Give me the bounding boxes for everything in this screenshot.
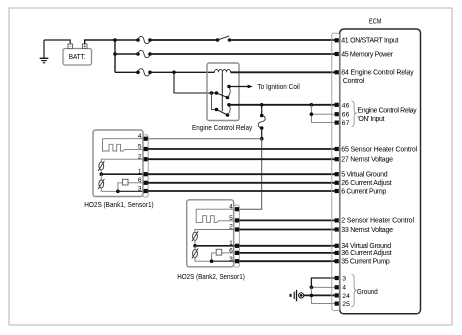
svg-text:3: 3: [342, 275, 346, 282]
wire fuse F1 to ignition switch: [150, 39, 218, 41]
pump cell (bank2): [194, 246, 196, 250]
junction cell node (bank1): [100, 172, 104, 176]
wire ground bus vertical: [310, 287, 312, 303]
wire row2 to fuse: [115, 53, 138, 55]
relay coil: [215, 70, 231, 73]
wire ground to ECM pin 24: [304, 294, 335, 296]
svg-text:1: 1: [229, 240, 233, 247]
svg-text:4: 4: [138, 133, 142, 140]
wire ECM pin 25 to ground bus: [311, 303, 334, 305]
junction ground bus a: [310, 286, 314, 290]
svg-text:34 Virtual Ground: 34 Virtual Ground: [341, 243, 391, 250]
svg-text:66: 66: [342, 112, 350, 119]
wire bank2 pin6 to ECM pin 36: [239, 252, 335, 254]
junction node relay contact feed: [172, 71, 176, 75]
wire pin2 to Nernst cell (bank2): [195, 230, 235, 233]
svg-text:Engine Control Relay: Engine Control Relay: [192, 125, 253, 132]
svg-text:2: 2: [229, 224, 233, 231]
svg-text:33 Nernst Voltage: 33 Nernst Voltage: [341, 227, 393, 234]
svg-text:'ON' Input: 'ON' Input: [357, 116, 384, 123]
connector strip (bank2): [234, 205, 239, 267]
wire ECM pin 3 to ground bus: [311, 278, 334, 287]
relay contact pole1 throw arc: [228, 87, 231, 98]
relay contact pole1 blade: [217, 93, 228, 98]
wire bank2 pin3 to ECM pin 35: [239, 260, 335, 262]
wire fuse F4 to heater bus: [261, 128, 263, 139]
HO2S (Bank2, Sensor1) sensor: [187, 200, 240, 267]
ECM pin squares: [335, 38, 339, 306]
ECM pin labels: [341, 38, 417, 308]
Nernst cell (bank1): [99, 162, 104, 170]
junction pump return (bank1): [116, 190, 120, 194]
svg-text:35 Current Pump: 35 Current Pump: [341, 259, 390, 266]
wire heater bus to HO2S bank1 pin 4: [148, 138, 262, 140]
wire bank1 pin2 to ECM pin 27: [148, 158, 335, 160]
svg-text:5 Virtual Ground: 5 Virtual Ground: [341, 172, 387, 179]
junction pin66 node: [310, 112, 314, 116]
pump cell (bank1): [100, 174, 102, 180]
svg-text:65 Sensor Heater Control: 65 Sensor Heater Control: [341, 146, 417, 153]
calibration resistor (bank1): [128, 182, 144, 184]
wire relay pole2 to ECM pin 46: [229, 104, 335, 106]
svg-text:HO2S (Bank2, Sensor1): HO2S (Bank2, Sensor1): [177, 274, 245, 281]
fuse F2: [136, 50, 152, 57]
svg-text:+: +: [83, 44, 86, 50]
junction battery bus row1: [113, 38, 117, 42]
wire heater bus down to HO2S bank2 pin 4: [239, 139, 262, 210]
wire to ECM pin 67: [311, 122, 334, 124]
wire bank2 pin1 to ECM pin 34: [239, 245, 335, 247]
svg-text:Engine Control Relay: Engine Control Relay: [357, 107, 417, 114]
wire bank1 pin1 to ECM pin 5: [148, 173, 335, 175]
svg-text:5: 5: [229, 215, 233, 222]
pin numbers (bank1): [138, 133, 142, 193]
wire junction down to relay contact common: [174, 72, 212, 93]
wire bank1 pin6 to ECM pin 26: [148, 182, 335, 184]
svg-text:46: 46: [342, 102, 350, 109]
svg-text:67: 67: [342, 120, 350, 127]
wire relay coil to ECM pin 84: [231, 71, 335, 73]
battery BATT.: [63, 44, 92, 65]
svg-text:84 Engine Control Relay: 84 Engine Control Relay: [341, 70, 414, 77]
svg-text:26 Current Adjust: 26 Current Adjust: [341, 180, 391, 187]
relay contact common junction: [210, 91, 214, 95]
wire bank2 pin2 to ECM pin 33: [239, 229, 335, 231]
svg-text:To Ignition Coil: To Ignition Coil: [257, 84, 300, 91]
wire battery negative to ground: [44, 40, 70, 44]
wire fuse F3 to relay coil: [150, 71, 215, 73]
svg-text:4: 4: [342, 285, 346, 292]
wire pin1 virtual ground (bank2): [195, 245, 235, 247]
junction cell node (bank2): [193, 244, 197, 248]
brace ON input group: [352, 101, 357, 127]
wire bank1 pin5 to ECM pin 65: [148, 148, 335, 150]
svg-text:2 Sensor Heater Control: 2 Sensor Heater Control: [341, 218, 414, 225]
svg-text:BATT.: BATT.: [69, 54, 86, 61]
heater element: [103, 139, 144, 151]
calibration resistor (bank2): [222, 252, 235, 254]
relay contact pole2 blade: [217, 110, 228, 116]
junction heater bus node: [260, 137, 264, 141]
arrowhead to ignition coil: [248, 85, 253, 89]
svg-text:24: 24: [342, 293, 350, 300]
wire row1 to fuse: [115, 39, 138, 41]
wire bank1 pin3 to ECM pin 6: [148, 190, 335, 192]
fuse F1: [136, 36, 152, 43]
wire battery feed bus (vertical): [114, 40, 116, 72]
wire pin3 (bank2): [212, 260, 235, 262]
svg-text:6: 6: [229, 247, 233, 254]
svg-text:HO2S (Bank1, Sensor1): HO2S (Bank1, Sensor1): [84, 202, 154, 209]
Nernst cell (bank2): [193, 232, 198, 240]
junction ground bus b: [310, 294, 314, 298]
wire ON-input vertical: [310, 105, 312, 123]
wire ignition switch to ECM pin 41: [230, 39, 335, 41]
svg-text:2: 2: [138, 153, 142, 160]
wire pin1 virtual ground (bank1): [101, 173, 143, 175]
svg-text:27 Nernst Voltage: 27 Nernst Voltage: [341, 157, 393, 164]
fuse F4 (vertical): [258, 114, 265, 130]
heater element (bank2): [196, 209, 235, 222]
wire row3 to fuse: [115, 71, 138, 73]
relay Engine Control Relay: [207, 63, 239, 121]
svg-text:5: 5: [138, 143, 142, 150]
svg-text:4: 4: [229, 203, 233, 210]
relay armature line: [221, 72, 223, 111]
svg-text:3: 3: [229, 256, 233, 263]
svg-text:45 Memory Power: 45 Memory Power: [341, 51, 393, 58]
fuse F3: [136, 69, 152, 76]
svg-text:Control: Control: [343, 78, 365, 85]
wire pin3 (bank1): [118, 190, 144, 192]
svg-text:36 Current Adjust: 36 Current Adjust: [341, 250, 391, 257]
relay contact pole2 throw arc: [228, 105, 231, 115]
ground (ECM body ground): [290, 290, 304, 301]
svg-text:25: 25: [342, 301, 350, 308]
HO2S (Bank1, Sensor1) sensor: [93, 130, 148, 197]
pin squares (bank2): [235, 207, 239, 263]
svg-text:3: 3: [138, 186, 142, 193]
pin numbers (bank2): [229, 203, 233, 262]
svg-text:1: 1: [138, 168, 142, 175]
wire bank2 pin5 to ECM pin 2: [239, 219, 335, 221]
connector strip (bank1): [143, 135, 148, 197]
junction battery bus row2: [113, 52, 117, 56]
wire relay pole1 to ignition coil arrow: [229, 86, 248, 88]
wire to ECM pin 66: [311, 113, 334, 115]
svg-text:41 ON/START Input: 41 ON/START Input: [341, 38, 398, 45]
svg-text:Ground: Ground: [357, 289, 378, 296]
ignition switch: [216, 36, 232, 42]
junction heater feed tap: [260, 103, 264, 107]
wire ECM pin 4 to ground bus: [311, 286, 334, 288]
wire common branch to pole 2: [212, 93, 217, 110]
svg-text:ECM: ECM: [369, 19, 381, 26]
pin squares (bank1): [144, 137, 148, 193]
junction pump return (bank2): [210, 259, 214, 263]
wire tap down to fuse F4: [261, 105, 263, 116]
ECM module box: [332, 19, 421, 314]
brace ground group: [352, 275, 357, 307]
ECM connector strip: [332, 33, 340, 310]
svg-text:6 Current Pump: 6 Current Pump: [341, 188, 386, 195]
ground (battery negative): [40, 40, 49, 63]
svg-text:6: 6: [138, 177, 142, 184]
wire fuse F2 to ECM pin 45: [150, 53, 335, 55]
wire pin2 to Nernst cell: [101, 159, 143, 162]
wire battery positive: [85, 40, 115, 44]
junction ON-input node: [310, 103, 314, 107]
